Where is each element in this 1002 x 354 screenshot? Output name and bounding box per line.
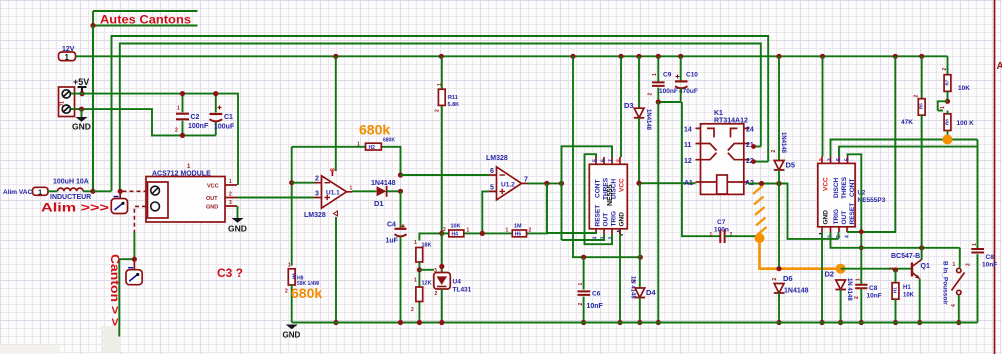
svg-text:7: 7 [609,159,615,162]
svg-text:H4: H4 [452,232,459,238]
svg-text:3: 3 [434,268,437,274]
wire base line D2 to Q1 [841,268,911,270]
svg-text:A1: A1 [684,180,693,187]
svg-text:D4: D4 [646,288,656,297]
svg-text:R7: R7 [945,79,950,85]
svg-text:100uH 10A: 100uH 10A [53,179,89,186]
svg-text:RESET: RESET [595,205,602,227]
wire U2 gnd pin1 to rail [821,232,823,323]
wire U2 pin2 TRIG line to button corner [831,232,960,248]
svg-text:1: 1 [229,179,232,185]
wire U2 pin3 drop [838,232,840,239]
svg-text:6: 6 [601,159,607,162]
resistor H8 59K [285,263,320,323]
orange dot at 100K bottom [943,135,953,145]
svg-text:C9: C9 [663,72,672,79]
wire R11 chain from rail [441,56,443,233]
svg-text:1N4148: 1N4148 [784,288,809,295]
svg-text:VCC: VCC [207,184,219,190]
svg-text:2: 2 [966,263,972,266]
svg-text:7: 7 [828,158,834,161]
svg-text:2: 2 [315,176,319,183]
wire bus line y43 [120,44,761,192]
svg-text:GND: GND [283,331,301,340]
svg-text:U1.1: U1.1 [326,190,340,197]
wire module GND down [237,206,239,218]
svg-text:1N4148: 1N4148 [371,180,396,187]
resistor R8 100K with jog [938,101,974,139]
orange dot at C7 node [755,233,765,243]
wire C7 left feed [682,102,720,236]
wire D3 node to relay A1 [639,182,696,184]
svg-text:H2: H2 [369,145,376,151]
svg-text:1: 1 [940,106,946,109]
svg-text:470uF: 470uF [679,88,698,95]
svg-text:U1.2: U1.2 [501,182,515,189]
capacitor C10 470uF [656,56,699,104]
diode D6 1N4148 [772,274,809,325]
svg-text:GND: GND [228,224,247,234]
svg-text:Canton > >: Canton > > [108,254,120,326]
svg-text:C8: C8 [986,254,995,261]
wire U2 vcc pin8 from rail [822,56,824,156]
svg-text:R8: R8 [945,119,950,125]
timer U2 NE555P3 [818,157,886,239]
junction at x120 [118,189,123,194]
svg-text:100nF: 100nF [188,123,209,130]
svg-text:D1: D1 [374,199,384,208]
svg-text:2: 2 [854,296,860,299]
wire inductor node up to Autes Cantons [92,26,94,192]
svg-text:NE555: NE555 [607,184,614,206]
diode D4 1N4148 [630,183,657,325]
svg-text:CONT: CONT [849,179,856,197]
capacitor C2 100nF [175,91,209,138]
resistor H1 10K base pulldown [889,267,915,325]
wire relay pin22 up to bus [754,161,769,163]
svg-text:LM328: LM328 [486,155,508,162]
svg-text:1N4148: 1N4148 [780,132,786,154]
svg-text:1: 1 [177,106,180,112]
svg-text:C7: C7 [717,219,726,226]
sheet margin gray areas [101,326,121,352]
capacitor C4 1uF [386,222,407,323]
svg-text:3: 3 [315,191,319,198]
svg-text:12K: 12K [422,281,432,287]
wire relay pin21 up to bus [754,146,761,148]
resistor H2 680K [357,138,395,151]
svg-text:680k: 680k [359,122,390,138]
switch S2 (open jumper) [126,259,142,285]
wire op-amp pin8 to 12V rail [335,56,337,171]
svg-text:+5V: +5V [73,77,89,87]
transistor Q1 BC547-B [891,248,930,325]
svg-text:C1: C1 [224,114,233,121]
wire D1 cathode to node [387,190,401,192]
net label Autes Cantons [90,11,197,191]
wire feedback node vertical x292 [291,147,293,266]
wire U2 pin4 RESET to 12V pullup [847,56,895,232]
svg-text:2: 2 [889,267,895,270]
wire module OUT to op-amp pin3 [237,197,314,199]
svg-text:C2: C2 [191,114,200,121]
svg-text:100nF: 100nF [659,88,678,95]
svg-text:5.8K: 5.8K [448,102,460,108]
resistor H6 1M [506,224,532,238]
diode D3 1N4148 [624,56,651,183]
svg-text:H8: H8 [292,273,297,279]
svg-text:6: 6 [490,168,494,175]
wire divider row [442,183,547,233]
svg-text:H6: H6 [515,232,522,238]
svg-text:RESET: RESET [849,203,856,225]
svg-text:THRES: THRES [841,176,848,199]
orange highlight wire C7 to D2 [760,239,841,269]
op-amp U1.1 LM328 [304,168,353,220]
svg-text:K1: K1 [714,110,723,117]
svg-text:2: 2 [411,307,414,313]
wire 12V rail [76,55,948,57]
wire op-amp pin2 input [292,182,314,184]
svg-text:GND: GND [206,205,218,211]
wire feedback top run with 680k [292,147,401,175]
junction dots on 12V rail [333,54,924,59]
svg-text:B In_Poussoir: B In_Poussoir [942,261,949,305]
supply symbol +5V [73,77,89,96]
diode D1 1N4148 [371,180,396,208]
svg-text:R11: R11 [448,95,458,101]
svg-text:10nF: 10nF [982,262,997,269]
svg-text:1: 1 [288,263,291,269]
wire U1.2 pin5 jog down [482,191,489,233]
svg-text:1: 1 [972,243,978,246]
resistor 47K R6 [901,56,925,248]
timer IC3 NE555 [589,157,627,240]
wire J1 pin2 gnd net [71,109,216,135]
svg-text:D6: D6 [783,274,793,283]
frame border right [994,0,996,354]
relay K1 RT314A12 [684,110,754,194]
resistor H4 10K [443,224,470,238]
svg-text:C8: C8 [869,285,878,292]
dashed wire ACS712 terminal 2 down [134,206,146,232]
svg-text:TRIG: TRIG [611,211,618,227]
wire TL431 ref link [419,269,434,271]
switch S1 (open jumper) [111,191,127,213]
svg-text:C6: C6 [592,291,601,298]
svg-text:1: 1 [437,83,443,86]
svg-text:11: 11 [684,142,692,149]
svg-text:47K: 47K [901,119,913,126]
wire U2 pin5 CONT jog [848,154,862,284]
module ACS712 [146,164,237,222]
diode D5 1N4148 [771,56,795,268]
svg-text:1: 1 [953,262,956,268]
wire 555 pin7 loop [562,146,613,240]
svg-text:GND: GND [823,210,830,225]
svg-text:H1: H1 [903,285,911,291]
svg-text:2: 2 [529,228,532,234]
wire U1.2 output run [528,182,562,184]
svg-text:4: 4 [845,235,851,238]
svg-text:TL431: TL431 [453,287,472,294]
svg-text:2: 2 [942,68,948,71]
capacitor C8 10nF [966,243,998,323]
svg-text:1: 1 [357,142,360,148]
capacitor C7 100n [710,219,760,243]
svg-text:R6: R6 [919,103,924,109]
svg-text:U4: U4 [453,279,462,286]
wire 555 pin3 loop [547,183,596,234]
svg-text:D3: D3 [624,101,634,110]
svg-text:1: 1 [578,283,584,286]
svg-text:OUT: OUT [841,211,848,225]
wire C8 drop from THRES line [977,140,979,249]
svg-text:2: 2 [914,95,920,98]
svg-text:1: 1 [414,240,417,246]
svg-text:1: 1 [65,53,70,62]
dashed wire to ACS712 terminal 1 [123,190,147,192]
svg-text:1N4148: 1N4148 [645,109,651,131]
wire node to U1.2 pin6 [401,174,490,176]
wire 555 gnd pin1 down [619,234,621,323]
shunt regulator U4 TL431 [434,233,472,322]
wire C9 C10 node to gnd rail [657,102,659,323]
svg-text:680K: 680K [383,138,395,144]
svg-text:2: 2 [443,227,446,233]
svg-text:GND: GND [72,122,91,132]
wire U1.1 pin4 to gnd rail [335,217,337,323]
junction D5 D6 on highlighted wire [776,266,781,271]
svg-text:1: 1 [38,187,42,196]
svg-text:D2: D2 [825,270,835,279]
svg-text:1: 1 [652,73,658,76]
svg-text:TRIG: TRIG [833,209,840,225]
svg-text:5: 5 [593,159,599,162]
wire U2 pin7 DISCH to 100K node [831,140,978,157]
svg-text:1: 1 [414,278,417,284]
resistor R7 10K [942,56,970,104]
svg-text:DISCH: DISCH [833,177,840,198]
wire op-amp output to D1 [352,190,376,192]
ground rail bottom [292,322,978,324]
svg-text:10K: 10K [903,293,915,299]
capacitor C6 10nF [578,257,604,325]
svg-text:2: 2 [435,109,441,112]
wire 12V drop x573 to C5 line [573,56,640,257]
wire 555 pin5 pin2 loop [585,154,613,244]
svg-text:8: 8 [819,158,825,161]
svg-text:12: 12 [684,158,692,165]
svg-text:10nF: 10nF [867,293,882,300]
svg-text:4: 4 [951,304,957,307]
ground symbol at rail start [283,325,301,340]
op-amp U1.2 LM328 [486,155,528,200]
svg-text:Alim VAC: Alim VAC [3,189,32,196]
svg-text:10nF: 10nF [587,303,604,310]
capacitor C9 100nF [648,56,678,102]
ground symbol at module [228,218,247,234]
ground symbol at J1 [72,109,91,131]
svg-text:7: 7 [524,177,528,184]
svg-text:2: 2 [772,278,778,281]
svg-text:10K: 10K [451,224,461,230]
capacitor C8 10nF near U2 [854,278,882,325]
svg-text:1: 1 [506,228,509,234]
svg-text:H1: H1 [893,287,898,293]
svg-text:LM328: LM328 [304,212,326,219]
svg-text:Autes Cantons: Autes Cantons [100,13,191,27]
resistor R11 5.8K [435,83,460,112]
svg-text:3: 3 [229,200,232,206]
svg-text:GND: GND [619,212,626,227]
svg-text:10K: 10K [958,85,970,92]
resistor H10 10K [411,240,432,323]
svg-text:1: 1 [710,232,713,238]
svg-text:C4: C4 [387,222,396,229]
svg-text:5: 5 [845,158,851,161]
wire Canton vertical [119,232,134,337]
orange highlight zigzag on relay wire [753,186,767,235]
svg-text:100n: 100n [714,227,729,234]
wire U2 pin6 THRES run [839,147,978,157]
wire H10 top link [419,233,441,240]
connector J1 [59,87,75,117]
svg-text:VCC: VCC [823,177,830,191]
push button BP Poussoir [942,248,965,325]
svg-text:14: 14 [684,127,692,134]
wire 555 vcc pin8 from rail [620,56,622,157]
capacitor C1 100uF polarized [210,91,235,135]
svg-text:1: 1 [467,228,470,234]
wire relay A2 node line to U2 pin3 [749,184,839,239]
svg-text:OUT: OUT [603,213,610,227]
svg-text:C10: C10 [686,72,698,79]
svg-text:OUT: OUT [206,196,218,202]
svg-text:24: 24 [746,127,754,134]
svg-text:Alim >>>: Alim >>> [41,201,109,215]
svg-text:D5: D5 [786,161,796,170]
diode D2 1N4148 [825,270,853,326]
svg-text:1: 1 [856,278,862,281]
wire node down to C4 [400,191,402,228]
svg-text:2: 2 [229,192,232,198]
svg-text:6: 6 [836,158,842,161]
svg-text:2: 2 [771,150,777,153]
svg-text:2: 2 [435,291,438,297]
wire +5V rail to C2 C1 and module VCC [71,94,238,185]
supply symbol 12V [59,46,76,62]
svg-text:C3 ?: C3 ? [217,266,243,280]
wire bus line y36 [112,36,769,191]
svg-text:BC547-B: BC547-B [891,253,920,260]
svg-text:1M: 1M [514,224,522,230]
svg-text:CONT: CONT [595,180,602,198]
svg-text:1N 4148: 1N 4148 [846,278,852,301]
svg-text:680k: 680k [291,285,322,301]
svg-text:100 K: 100 K [957,120,975,127]
svg-text:Q1: Q1 [921,263,930,270]
svg-text:5: 5 [490,185,494,192]
svg-text:2: 2 [648,93,654,96]
svg-text:1uF: 1uF [386,238,399,245]
svg-text:2: 2 [175,128,178,134]
resistor H9 12K [414,278,432,302]
svg-text:100uF: 100uF [214,124,235,131]
orange dot at D2 [836,264,846,274]
pin symbol Alim VAC [3,187,48,196]
svg-text:8: 8 [617,159,623,162]
wire inductor node to bus vertical [93,190,112,192]
inductor L 100uH 10A [48,179,93,201]
svg-text:VCC: VCC [619,178,626,192]
svg-text:A: A [997,61,1002,72]
svg-text:2: 2 [285,289,288,295]
